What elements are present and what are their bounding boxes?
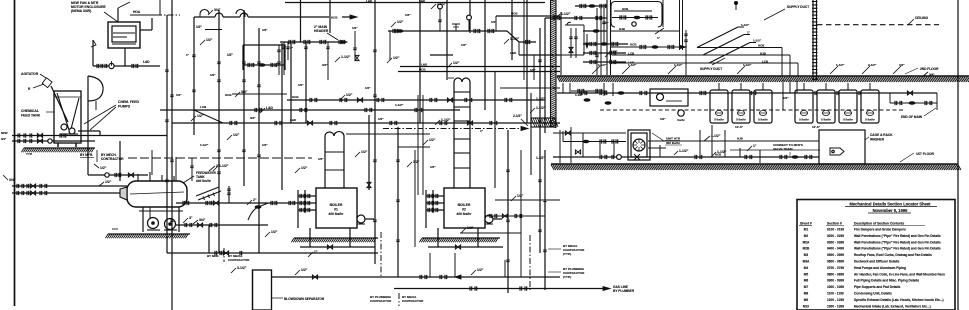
svg-text:BOILER: BOILER (330, 203, 343, 207)
svg-text:0300 - 0399: 0300 - 0399 (827, 240, 844, 244)
svg-text:0800 - 0899: 0800 - 0899 (827, 272, 844, 276)
svg-text:CONTRACTOR: CONTRACTOR (228, 258, 250, 262)
ceiling dashed line (817, 24, 939, 26)
boiler B1 burner pump (357, 215, 365, 223)
svg-text:CHEMICAL: CHEMICAL (21, 109, 39, 113)
svg-text:L&D: L&D (421, 63, 428, 67)
svg-text:1/2": 1/2" (227, 53, 233, 57)
pipe: upper room y31 left of wall (583, 30, 607, 32)
svg-text:1/2": 1/2" (271, 230, 278, 234)
pipe: riser x172 full height (171, 0, 173, 310)
risers to feedwater tank top (151, 150, 153, 175)
svg-text:1-1/2": 1-1/2" (536, 106, 546, 110)
svg-text:1-1/2": 1-1/2" (679, 149, 689, 153)
contract boundary dash-dot line (128, 157, 312, 159)
svg-text:1/2": 1/2" (176, 93, 182, 97)
pipe: riser x282 (281, 43, 283, 190)
pipe: riser x167 (166, 15, 168, 253)
tank inlet cone (120, 187, 127, 200)
pipe: chem pump discharge (78, 130, 100, 132)
svg-text:1/2": 1/2" (461, 43, 467, 47)
svg-text:HJB: HJB (737, 137, 743, 141)
svg-text:Air Handler, Fan Coils, In-Lin: Air Handler, Fan Coils, In-Line Fans, an… (854, 272, 945, 276)
svg-text:1-1/2": 1-1/2" (628, 63, 637, 67)
pipe: vertical x663 (662, 0, 664, 27)
svg-text:HEADER: HEADER (314, 29, 329, 33)
svg-text:(TYP.): (TYP.) (563, 252, 571, 256)
svg-text:HJB: HJB (760, 52, 766, 56)
svg-text:1/2": 1/2" (517, 194, 524, 198)
svg-text:AGITATOR: AGITATOR (21, 72, 39, 76)
svg-text:L&D: L&D (290, 118, 297, 122)
pipe: riser x508 (507, 130, 509, 293)
pipe: stacked mains y47 y55 y63 to right elbows (697, 47, 782, 49)
top vent dot (734, 1, 738, 5)
boiler B1 stack (325, 136, 344, 188)
svg-text:Heat Pumps and Aluminum Piping: Heat Pumps and Aluminum Piping (854, 266, 906, 270)
pipe: lcb jog diagonal (194, 110, 223, 123)
svg-text:1/2": 1/2" (477, 268, 484, 272)
riser bundle tick clusters (217, 62, 221, 174)
pipe: hcb line y47 left block (610, 46, 686, 48)
humidifier unit row A3 (754, 90, 772, 123)
svg-text:5 lbs/hr: 5 lbs/hr (821, 118, 831, 122)
svg-text:BOILER: BOILER (458, 203, 471, 207)
svg-text:1/2": 1/2" (491, 20, 497, 24)
svg-text:HJB: HJB (619, 27, 625, 31)
svg-text:CONTRACTOR: CONTRACTOR (402, 299, 424, 303)
svg-text:HCB: HCB (292, 95, 299, 99)
svg-text:Description of Section Content: Description of Section Contents (854, 222, 904, 226)
diagonal size labels above slab (592, 66, 600, 74)
svg-text:Rooftop Fans, Roof Curbs, Drai: Rooftop Fans, Roof Curbs, Drainag and Fa… (854, 253, 932, 257)
svg-text:2-1/2": 2-1/2" (868, 63, 877, 67)
svg-text:Ductwork and Diffuser Details: Ductwork and Diffuser Details (854, 260, 900, 264)
svg-text:1/2": 1/2" (430, 165, 436, 169)
pipe: secondary header y225 (176, 224, 268, 226)
pipe: hcb spur y94 (232, 93, 287, 95)
svg-text:LCB: LCB (762, 60, 768, 64)
svg-text:CHEM. FEED: CHEM. FEED (118, 100, 139, 104)
blowdown separator vessel (253, 270, 272, 310)
pipe: upper verticals left of wall (544, 18, 546, 133)
svg-text:2ND FLOOR: 2ND FLOOR (920, 67, 939, 71)
svg-text:HCB: HCB (225, 93, 232, 97)
wall: vertical wall x607 (606, 0, 608, 75)
svg-text:5 lbs/hr: 5 lbs/hr (714, 118, 724, 122)
svg-text:LCB: LCB (200, 105, 207, 109)
svg-text:1/2": 1/2" (660, 117, 666, 121)
svg-text:Fire Dampers and Grube Dampers: Fire Dampers and Grube Dampers (854, 228, 906, 232)
pipe: riser x330 (329, 0, 331, 33)
svg-text:1100 - 1199: 1100 - 1199 (827, 292, 844, 296)
pipe: riser x219 (218, 10, 220, 253)
pipe: long top line y2.5 (285, 2, 545, 4)
svg-text:M3A: M3A (803, 260, 810, 264)
humidifier unit row B3 (839, 90, 857, 123)
svg-text:3/4": 3/4" (199, 218, 206, 222)
pipe: riser x291 (290, 43, 292, 123)
unit row risers (562, 83, 564, 93)
pipe: blowdown main y277 (271, 276, 560, 278)
svg-text:### lbs/hr: ### lbs/hr (196, 179, 212, 183)
pipe: drain line with unions (93, 65, 160, 67)
pipe: riser x398 long (397, 127, 399, 277)
svg-text:HCB: HCB (331, 16, 338, 20)
floor slab: 1st floor (551, 163, 958, 165)
pipe: header y31 with vents (388, 30, 507, 32)
tank vent diagonal pipes (196, 187, 219, 196)
pipe: loop block right of wall607 (611, 2, 662, 28)
condensate unit circle (678, 110, 684, 116)
tank stand legs (142, 207, 144, 232)
pipe: riser x420 (419, 0, 421, 123)
pipe: riser x244 (243, 10, 245, 186)
pipe: end of main loop far right (936, 93, 938, 110)
humidifier unit row A2 (732, 90, 750, 123)
pipe: header y123 (172, 122, 560, 124)
svg-text:Full Piping Details and Misc.: Full Piping Details and Misc. Piping Det… (854, 279, 919, 283)
pipes between boilers (368, 115, 370, 190)
svg-text:1/2": 1/2" (899, 63, 905, 67)
svg-text:Mechanical Details Section Lo: Mechanical Details Section Locator Sheet (850, 202, 932, 207)
svg-text:1/2": 1/2" (378, 117, 384, 121)
unit row left equipment box (650, 89, 688, 106)
pipe: top stubs near enclosure (159, 0, 161, 15)
svg-text:1/2": 1/2" (210, 73, 216, 77)
svg-text:M8: M8 (804, 292, 809, 296)
svg-text:1/2": 1/2" (467, 226, 474, 230)
svg-text:3-1/2": 3-1/2" (237, 266, 247, 270)
pipe: riser x194 (193, 17, 195, 135)
svg-text:0400 - 0499: 0400 - 0499 (827, 247, 844, 251)
svg-text:NPW: NPW (1, 131, 8, 135)
pipe: riser x470 (469, 0, 471, 33)
svg-text:Condensing Unit, Details: Condensing Unit, Details (854, 292, 892, 296)
svg-text:CEILING: CEILING (915, 16, 928, 20)
svg-text:3/4": 3/4" (603, 21, 609, 25)
svg-text:1": 1" (314, 250, 318, 254)
pipe: header y71 HCB (398, 71, 560, 73)
svg-text:M10: M10 (803, 304, 809, 308)
svg-text:1/2": 1/2" (352, 26, 358, 30)
svg-text:1/2": 1/2" (301, 268, 308, 272)
humidifier unit row B1 (795, 90, 813, 123)
svg-text:PUMPS: PUMPS (118, 105, 131, 109)
vent stub above enclosure (117, 8, 119, 22)
svg-text:1/2": 1/2" (206, 38, 213, 42)
pipe: main header y42 (280, 41, 347, 43)
pipe: riser x259 (258, 28, 260, 253)
svg-text:1": 1" (753, 144, 757, 148)
svg-text:M3: M3 (804, 253, 809, 257)
wall: hatched vertical wall x550-556 (551, 0, 557, 127)
pipe: hcb line y16 right (496, 15, 560, 17)
svg-text:HCB: HCB (758, 44, 764, 48)
pipe: gas line y288 (394, 288, 609, 290)
leader to enclosure (104, 12, 118, 22)
motor enclosure box (108, 22, 140, 48)
boiler B1 feed piping (298, 195, 316, 197)
boiler feed pumps (148, 218, 159, 229)
svg-text:1-1/2": 1-1/2" (219, 164, 229, 168)
relief valve on header (455, 24, 457, 31)
svg-text:1/2": 1/2" (301, 166, 308, 170)
pipe: heater stub y148 (648, 147, 666, 149)
tank legs (57, 143, 59, 147)
prv station loop box (243, 45, 285, 70)
svg-text:0600 - 0699: 0600 - 0699 (827, 260, 844, 264)
pipe: drop to tank floor (87, 101, 89, 136)
svg-text:1/2": 1/2" (233, 133, 240, 137)
drum rig (quarter round) (88, 76, 103, 101)
pipe: riser x512 (511, 0, 513, 60)
svg-text:BY MFR.: BY MFR. (80, 153, 93, 157)
pipe: header y110 (160, 109, 460, 111)
svg-text:12′-6": 12′-6" (812, 125, 821, 129)
svg-text:M7: M7 (804, 285, 809, 289)
svg-text:M2A: M2A (803, 240, 810, 244)
hatched ground under feedwater tank (108, 233, 190, 235)
valve on drain line (109, 63, 114, 68)
wall: hatched stub lintel (531, 118, 556, 127)
svg-text:1-1/2": 1-1/2" (717, 150, 727, 154)
svg-text:M2: M2 (804, 234, 809, 238)
svg-text:Wall Penetrations (“Pipe” Fire: Wall Penetrations (“Pipe” Fire Rated) an… (854, 247, 941, 251)
svg-text:L&D: L&D (143, 60, 150, 64)
boiler B1 ground (294, 237, 378, 239)
svg-text:3/4": 3/4" (929, 73, 935, 77)
agitator shaft (51, 86, 68, 122)
pipe: tank top feed y175 (88, 174, 148, 176)
pipe: stack top tie line y134 (346, 133, 430, 135)
gas train risers (559, 130, 561, 163)
pipe: header y88 right (500, 87, 560, 89)
svg-text:WASHER: WASHER (870, 138, 885, 142)
svg-text:5 lbs/hr: 5 lbs/hr (799, 118, 809, 122)
riser to enclosure (92, 40, 94, 66)
svg-text:1-1/2": 1-1/2" (395, 103, 404, 107)
svg-text:0500 - 0599: 0500 - 0599 (827, 253, 844, 257)
svg-text:Sheet #: Sheet # (800, 222, 812, 226)
svg-text:3/4": 3/4" (9, 178, 16, 182)
svg-text:1000 - 1099: 1000 - 1099 (827, 285, 844, 289)
boiler B1 drain piping (309, 228, 311, 247)
svg-text:300 lbs/hr: 300 lbs/hr (666, 141, 681, 145)
svg-text:1-1/2": 1-1/2" (674, 63, 683, 67)
svg-text:HCB: HCB (511, 12, 518, 16)
pipe: gas risers to floor (508, 292, 610, 294)
loop seal symbol (632, 22, 636, 26)
svg-text:1-1/2": 1-1/2" (598, 63, 607, 67)
svg-text:#2: #2 (462, 208, 466, 212)
pipe: hjb line y31 (610, 30, 680, 32)
svg-text:Specific Exhaust Details (Lab.: Specific Exhaust Details (Lab. Hoods, Ki… (854, 298, 944, 302)
svg-text:(NEMA 3/4R): (NEMA 3/4R) (71, 9, 91, 13)
svg-text:1/2": 1/2" (611, 50, 618, 54)
svg-text:1-1/2": 1-1/2" (561, 12, 571, 16)
feedwater tank (horizontal cylinder) (127, 181, 187, 207)
svg-text:#1: #1 (334, 208, 338, 212)
svg-text:1/2": 1/2" (453, 61, 460, 65)
svg-text:1/2": 1/2" (393, 56, 400, 60)
svg-text:3/4": 3/4" (322, 63, 328, 67)
svg-text:M1: M1 (804, 228, 809, 232)
svg-text:TYP.: TYP. (26, 152, 32, 156)
svg-text:1-1/2": 1-1/2" (510, 37, 520, 41)
hatched ground under chem tank (24, 147, 95, 149)
svg-text:1/2": 1/2" (262, 28, 268, 32)
pipe: stub y29 (205, 29, 222, 31)
svg-text:3": 3" (189, 216, 193, 220)
svg-text:1ST FLOOR: 1ST FLOOR (916, 152, 935, 156)
svg-text:5 lbs/hr: 5 lbs/hr (758, 118, 768, 122)
unit heater with fan (628, 130, 650, 160)
svg-text:1/2": 1/2" (196, 25, 202, 29)
pipe: riser x485 (484, 0, 486, 110)
dashed steam main through units y110 (600, 109, 905, 111)
wall: vertical wall right x958 full height (957, 0, 959, 310)
svg-text:Wall Penetrations (“Pipe” Fire: Wall Penetrations (“Pipe” Fire Rated) an… (854, 234, 941, 238)
riser cluster x229 (228, 186, 230, 203)
pipe: riser x521 (520, 150, 522, 277)
pipe: header y66 L&amp;D (400, 66, 560, 68)
svg-text:1-1/2": 1-1/2" (743, 63, 752, 67)
pipe: gas main to washer y157 (770, 156, 819, 158)
chemical feed tank (54, 91, 81, 143)
wall: rated wall x814 ladder pattern (812, 0, 814, 80)
pipe: pump discharge header y203 (176, 202, 298, 204)
pipe: vertical pair x680 (679, 0, 681, 50)
svg-text:1-1/2": 1-1/2" (441, 118, 451, 122)
svg-text:CONTRACTOR: CONTRACTOR (101, 157, 124, 161)
pipe: enclosure drop (124, 48, 126, 66)
svg-text:Mechanical Intake (Lab. Exhaus: Mechanical Intake (Lab. Exhaust, Ventila… (854, 304, 931, 308)
pipe: upper room y18 (545, 17, 607, 19)
boiler B2 burner pump (485, 215, 493, 223)
svg-text:1/2": 1/2" (397, 20, 404, 24)
svg-text:14′-6": 14′-6" (735, 125, 744, 129)
svg-text:1300 - 1399: 1300 - 1399 (827, 304, 844, 308)
humidifier unit row B4 (861, 90, 879, 123)
pipe: riser x545 lower (544, 150, 546, 290)
svg-text:1/2": 1/2" (530, 68, 536, 72)
svg-text:L&D: L&D (419, 0, 426, 3)
svg-text:1-1/2": 1-1/2" (836, 63, 845, 67)
svg-text:SUPPLY DUCT: SUPPLY DUCT (787, 5, 809, 9)
svg-text:1-1/2": 1-1/2" (536, 97, 545, 101)
pipe: upper room y6 (575, 5, 607, 7)
svg-text:1/2": 1/2" (405, 13, 411, 17)
pipe: feedwater inlet lines from left (12, 185, 127, 187)
pipe: header y55 (430, 54, 453, 56)
svg-text:M6: M6 (804, 279, 809, 283)
svg-text:M2B: M2B (803, 247, 810, 251)
right cluster verticals x279 x288 (278, 45, 280, 75)
svg-text:HCB: HCB (630, 43, 637, 47)
svg-text:BY PLUMBER: BY PLUMBER (613, 289, 635, 293)
svg-text:END OF MAIN: END OF MAIN (901, 115, 923, 119)
svg-text:UNIT HTR: UNIT HTR (666, 137, 681, 141)
misc diagonal size labels mid grid (200, 40, 205, 45)
svg-text:5 lbs/hr: 5 lbs/hr (865, 118, 875, 122)
svg-text:1-1/2": 1-1/2" (575, 93, 584, 97)
svg-text:1/2": 1/2" (346, 93, 353, 97)
svg-text:(TYP.): (TYP.) (563, 275, 571, 279)
svg-text:5 lbs/hr: 5 lbs/hr (736, 118, 746, 122)
pipe: below washer line (730, 149, 820, 151)
top zone verticals (283, 42, 285, 75)
svg-text:0700 - 0799: 0700 - 0799 (827, 266, 844, 270)
svg-text:Pipe Supports and Pad Details: Pipe Supports and Pad Details (854, 285, 900, 289)
svg-text:1/2": 1/2" (100, 166, 107, 170)
cage and rack washer box (819, 130, 865, 164)
svg-text:HCB: HCB (622, 7, 628, 11)
boiler B2 drain piping (437, 228, 439, 247)
risers into blowdown main (429, 253, 431, 277)
chem feed pumps (61, 124, 67, 130)
pipe: gas train y141 right of heater (648, 140, 819, 142)
svg-text:1-1/2": 1-1/2" (341, 55, 351, 59)
pipe: tank suction lines (12, 135, 167, 137)
boiler B2 feed piping (426, 195, 444, 197)
pipe: riser x306 mid (305, 42, 307, 123)
pipe: stub headers right of boiler2 (495, 199, 560, 201)
boiler B2 segmented column (454, 82, 470, 188)
pipe: vertical x686 (685, 30, 687, 76)
svg-text:1/2": 1/2" (298, 83, 304, 87)
pipe: riser x447 (446, 0, 448, 80)
pipe: riser x527 (526, 0, 528, 123)
svg-text:Section #: Section # (827, 222, 842, 226)
pipe: gas train main y157 (553, 156, 770, 158)
svg-text:BLOWDOWN SEPARATOR: BLOWDOWN SEPARATOR (284, 297, 325, 301)
boiler B2 ground (422, 237, 500, 239)
svg-text:1/2": 1/2" (361, 150, 368, 154)
svg-text:3/4": 3/4" (214, 8, 221, 12)
svg-text:lbs/hr: lbs/hr (677, 118, 684, 122)
svg-text:HCB: HCB (419, 68, 426, 72)
svg-text:1/2": 1/2" (262, 143, 268, 147)
svg-text:2-1/2": 2-1/2" (513, 114, 522, 118)
pipe: gas train y141 left (563, 141, 626, 143)
svg-text:1/2": 1/2" (429, 138, 436, 142)
boiler B1 body (316, 188, 357, 228)
svg-text:3/4": 3/4" (241, 90, 248, 94)
svg-text:1-1/2": 1-1/2" (753, 39, 762, 43)
svg-text:1/2": 1/2" (413, 160, 420, 164)
svg-text:### lbs/hr: ### lbs/hr (457, 212, 473, 216)
tank top nozzles (137, 174, 139, 181)
svg-text:CONTRACTOR: CONTRACTOR (370, 299, 392, 303)
pipe: riser x375 (374, 0, 376, 264)
svg-text:1-1/2": 1-1/2" (741, 23, 750, 27)
boiler B2 body (444, 188, 485, 228)
hoa dashes top (130, 14, 156, 16)
svg-text:3/4": 3/4" (250, 116, 256, 120)
humidifier unit row B2 (817, 90, 835, 123)
pipe: left-mid connector elbows (166, 123, 168, 136)
svg-text:1/2": 1/2" (197, 114, 204, 118)
pipe: gas train y133 (553, 132, 626, 134)
pipe: makeup water drop (208, 225, 210, 253)
section locator table frame (797, 200, 955, 310)
svg-text:CAGE & RACK: CAGE & RACK (870, 133, 893, 137)
svg-text:M4: M4 (804, 266, 809, 270)
pipe: riser x540 (539, 28, 541, 253)
svg-text:1/2": 1/2" (365, 86, 371, 90)
svg-text:1/2": 1/2" (318, 157, 324, 161)
